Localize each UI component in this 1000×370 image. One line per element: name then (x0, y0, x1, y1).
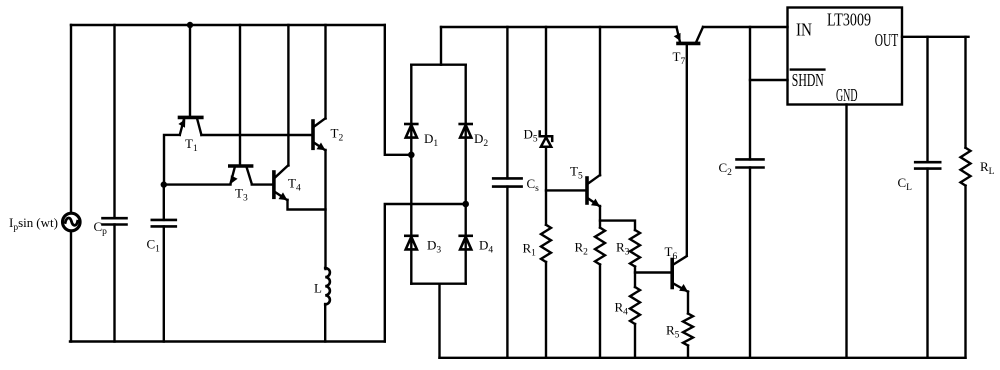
wire: T5 emitter down to R2 (599, 206, 601, 228)
label Cp (94, 219, 108, 237)
svg-text:R1: R1 (523, 241, 537, 259)
IC U1 LT3009 body (788, 8, 903, 105)
wire: bottom rail of right section (440, 357, 966, 359)
wire: bridge right output to left loop bottom (385, 204, 466, 342)
wire: bridge right rail (465, 65, 467, 284)
pin label GND (836, 85, 858, 105)
resistor RL (961, 148, 971, 186)
wire: bridge left rail (410, 65, 412, 284)
pin label LT3009 (827, 10, 871, 30)
label C2 (719, 160, 733, 178)
label L (314, 281, 322, 296)
label T3 (235, 186, 248, 204)
label R5 (666, 323, 680, 341)
svg-text:R5: R5 (666, 323, 680, 341)
wire: R4 to bottom rail (634, 324, 636, 358)
wire: DC+ top rail right of T7 to IC IN (703, 26, 788, 28)
wire: T5 collector to top rail (599, 27, 601, 175)
transistor T3 (PNP, base to top rail) (230, 25, 252, 184)
svg-text:Cp: Cp (94, 219, 108, 237)
transistor T2 (NPN) (313, 118, 325, 150)
label CL (898, 175, 913, 193)
label RL (980, 159, 995, 177)
pin label SHDN (active low) (791, 70, 825, 90)
node A junction dot (161, 181, 167, 187)
label: Ip sin(wt) (9, 215, 58, 233)
svg-text:C1: C1 (147, 237, 161, 255)
label R1 (523, 241, 537, 259)
resistor R4 (630, 287, 640, 324)
AC current source Ip sin(wt) (63, 213, 81, 231)
wire: T4 collector to top rail (287, 25, 289, 166)
wire: R1 to bottom rail (545, 262, 547, 358)
diode D1 (405, 124, 417, 138)
wire: C2 to bottom rail (749, 168, 751, 358)
wire: T4 emitter down and right to T2 emitter (288, 200, 326, 210)
wire: R3/R4 node to T6 base (635, 271, 671, 273)
wire: R2 to bottom rail (599, 265, 601, 358)
label T2 (331, 126, 344, 144)
label D5 (524, 127, 538, 145)
svg-text:D3: D3 (427, 238, 441, 256)
svg-text:T1: T1 (185, 136, 198, 154)
junction dot: bridge right output (462, 201, 469, 208)
label T5 (570, 164, 583, 182)
svg-text:T7: T7 (673, 49, 686, 67)
zener diode D5 (540, 132, 553, 147)
wire: RL branch upper (964, 37, 966, 148)
svg-text:R3: R3 (616, 240, 630, 258)
label T7 (673, 49, 686, 67)
capacitor CL (915, 162, 940, 168)
svg-text:T5: T5 (570, 164, 583, 182)
resistor R1 (541, 225, 551, 262)
transistor T1 (PNP, base to top rail) (178, 25, 201, 135)
svg-text:D1: D1 (424, 131, 438, 149)
svg-text:RL: RL (980, 159, 995, 177)
svg-text:LT3009: LT3009 (827, 10, 871, 30)
diode D2 (460, 124, 472, 138)
svg-text:D2: D2 (474, 131, 488, 149)
label T4 (288, 176, 301, 194)
capacitor C2 (737, 159, 764, 167)
pin label IN (796, 20, 812, 40)
wire: T2 collector to top rail (324, 25, 326, 119)
svg-text:D4: D4 (479, 238, 493, 256)
wire: D5 to R1 (545, 147, 547, 225)
capacitor Cs branch upper (506, 27, 508, 178)
wire: top rail of left loop (71, 24, 385, 26)
svg-text:R4: R4 (615, 300, 629, 318)
wire: CL to bottom rail (926, 169, 928, 358)
label R4 (615, 300, 629, 318)
wire: T1 left leg to node A (164, 135, 180, 185)
wire: left edge lower segment (70, 231, 72, 342)
wire: bridge top feed to DC+ rail (440, 27, 442, 65)
label R2 (575, 240, 589, 258)
wire: DC+ top rail left of T7 (441, 26, 677, 28)
label T1 (185, 136, 198, 154)
wire: Cs branch lower (506, 187, 508, 358)
svg-text:C2: C2 (719, 160, 733, 178)
capacitor Cs (493, 178, 521, 186)
svg-text:IN: IN (796, 20, 812, 40)
wire: T3 to T4 base (252, 183, 272, 185)
transistor T4 (NPN) (274, 165, 288, 200)
wire: T5 emitter branch to R3 (600, 221, 635, 230)
wire: inductor to bottom rail (324, 304, 326, 342)
wire: C2/SHDN branch upper (749, 27, 751, 159)
wire: R3 to R4 junction (634, 267, 636, 288)
junction dot: bridge left input (408, 152, 415, 159)
svg-text:OUT: OUT (875, 30, 899, 50)
transistor T7 (PNP pass, in series with rail) (674, 27, 703, 43)
resistor R2 (595, 228, 605, 265)
svg-text:T4: T4 (288, 176, 301, 194)
label R3 (616, 240, 630, 258)
wire: SHDN tie to IN branch (750, 79, 788, 81)
wire: node A to T3 emitter (164, 183, 231, 185)
wire: D5 branch upper (545, 27, 547, 136)
svg-text:T3: T3 (235, 186, 248, 204)
pin label OUT (875, 30, 899, 50)
svg-text:GND: GND (836, 85, 858, 105)
wire: base bus T1 to T2 (201, 134, 311, 136)
svg-text:Ipsin(wt): Ipsin(wt) (9, 215, 58, 233)
junction dot: top rail / T1 base (187, 22, 193, 28)
wire: T5 base from D5/R1 node (546, 189, 585, 191)
svg-text:R2: R2 (575, 240, 589, 258)
svg-text:L: L (314, 281, 322, 296)
wire: bottom rail of left loop (70, 340, 385, 342)
resistor R3 (630, 230, 640, 267)
transistor T6 (NPN) (672, 256, 688, 292)
label D1 (424, 131, 438, 149)
wire: T2 emitter down to inductor (324, 150, 326, 269)
wire: RL to bottom rail (964, 186, 966, 358)
label T6 (665, 244, 678, 262)
capacitor CL branch upper (926, 37, 928, 162)
label D3 (427, 238, 441, 256)
wire: GND pin to bottom rail (845, 105, 847, 358)
svg-text:SHDN: SHDN (792, 70, 824, 90)
diode D4 (460, 236, 472, 250)
diode D3 (405, 236, 417, 250)
wire: left edge upper segment (70, 25, 72, 213)
capacitor C1 (152, 185, 176, 342)
capacitor Cp (103, 25, 127, 342)
resistor R5 (683, 314, 693, 346)
label D2 (474, 131, 488, 149)
svg-text:CL: CL (898, 175, 913, 193)
wire: bridge bottom bar (411, 283, 465, 285)
wire: OUT pin to load (902, 36, 969, 38)
label D4 (479, 238, 493, 256)
wire: bridge top bar (411, 63, 465, 65)
svg-text:Cs: Cs (527, 176, 540, 194)
svg-text:T2: T2 (331, 126, 344, 144)
wire: R5 to bottom rail (687, 346, 689, 358)
wire: left loop right edge upper + feed to bridge (385, 25, 412, 155)
transistor T5 (NPN) (587, 175, 600, 206)
svg-text:D5: D5 (524, 127, 538, 145)
label C1 (147, 237, 161, 255)
wire: T7 base down to T6 collector (686, 45, 688, 256)
label Cs (527, 176, 540, 194)
wire: T6 emitter to R5 (687, 292, 689, 314)
wire: bridge bottom feed to DC- rail (438, 284, 440, 358)
inductor L (325, 268, 330, 304)
